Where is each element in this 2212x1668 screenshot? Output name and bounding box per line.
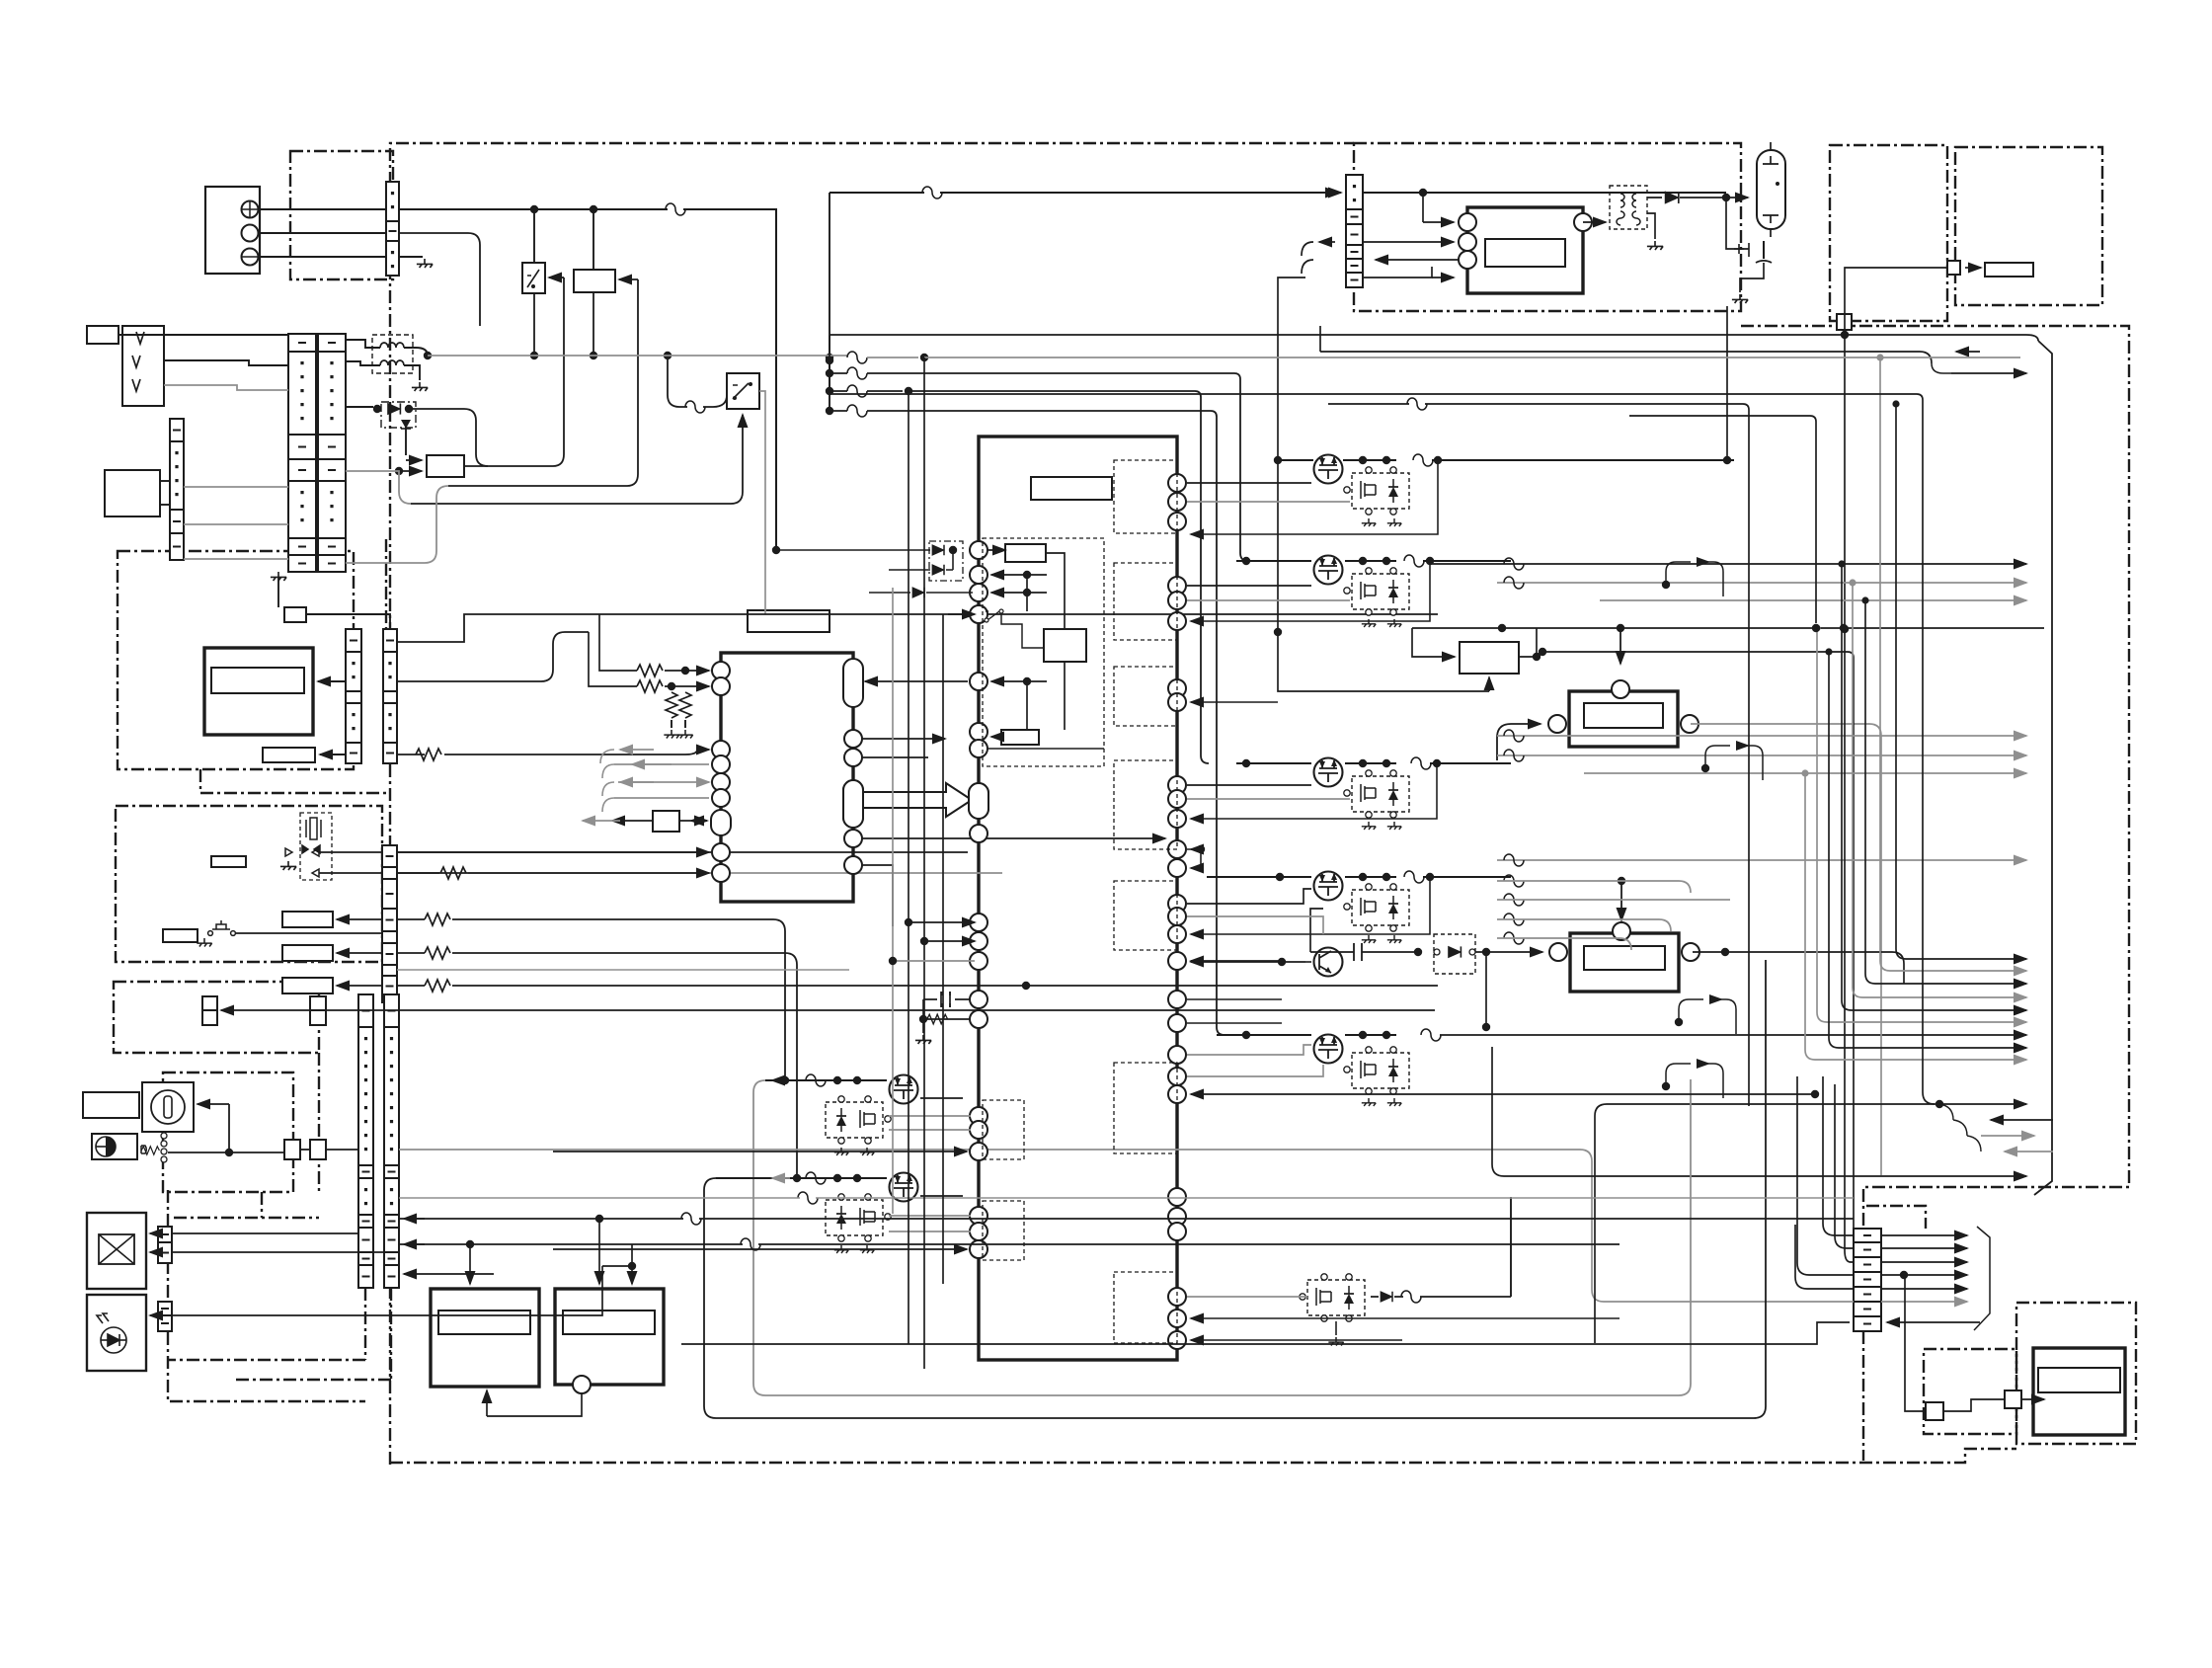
hook dot D <box>1662 1082 1670 1090</box>
wire CN302 r3 <box>397 952 425 954</box>
ground C901 <box>1732 294 1748 303</box>
dot y339 <box>1841 331 1849 339</box>
rail dot q904a <box>1359 873 1367 881</box>
tuner sub rect <box>211 856 246 867</box>
wire bundle w3 <box>829 390 847 392</box>
cluster return Q902 <box>1191 561 1430 621</box>
wire lb1 stub <box>1595 1104 1607 1343</box>
junction motor2 top <box>1618 877 1625 885</box>
opto dash-dot box D201 <box>381 402 416 428</box>
ground Q904 b <box>1387 935 1401 943</box>
wire D202 down <box>405 429 407 455</box>
arrow LED <box>150 1314 158 1316</box>
arrow left feed2 <box>404 1243 425 1245</box>
wire tuner clk a <box>319 851 382 853</box>
wire C2 run <box>1497 881 1691 893</box>
rail Q904 <box>1207 876 1396 878</box>
illum resistor <box>141 1146 146 1153</box>
connector CN201-a <box>288 334 316 572</box>
wire L201a out <box>404 348 428 356</box>
arrow pin711 <box>1191 701 1278 703</box>
wire D901 to lamp <box>1680 197 1748 199</box>
diode D802 <box>932 565 944 576</box>
wire fan1-0 <box>1896 404 2026 959</box>
dot q901 return <box>1434 456 1442 464</box>
wire fan1-2 <box>1865 600 2026 984</box>
dot 786-557 <box>772 546 780 554</box>
dot 1839-636 <box>1812 624 1820 632</box>
wire fan1-5 <box>1817 628 2026 1022</box>
cluster return Q903 <box>1191 763 1437 819</box>
wire Q801 pins <box>889 1116 971 1130</box>
driver dashed box Q901 <box>1344 467 1409 515</box>
arrow ir out <box>1956 351 1980 353</box>
wire D803 in <box>869 592 910 594</box>
servo amp rect <box>1005 544 1046 562</box>
wire encoder drop <box>228 1104 230 1152</box>
vertical bus 904 gray <box>892 588 894 1214</box>
wire CN201b mid out <box>346 471 411 504</box>
junction d1 <box>530 205 538 213</box>
transistor Q906 <box>1314 948 1343 977</box>
wire R304 right <box>452 953 797 1178</box>
junction 690 <box>1023 677 1031 685</box>
wire D201 out right <box>409 409 488 466</box>
arrow amp link <box>221 1009 310 1011</box>
junction L201 out <box>424 352 432 359</box>
wire illum to plugs <box>168 1152 284 1153</box>
dot q901 rail left <box>1274 456 1282 464</box>
junction boxB top2 <box>628 1262 636 1270</box>
junction R702 <box>668 682 675 690</box>
tuner rect B <box>282 945 333 961</box>
junction D902 low <box>1482 1023 1490 1031</box>
fan1 top dot 1 <box>1876 354 1883 360</box>
main unit dash-dot border left+top <box>390 143 1354 1465</box>
switch glyph S101 <box>527 270 539 287</box>
arrow boxB top2 <box>631 1244 633 1284</box>
wire LED run <box>172 1266 632 1315</box>
dot q904 return <box>1426 873 1434 881</box>
junction motor2 right <box>1721 948 1729 956</box>
junction q903 left <box>1242 759 1250 767</box>
MOSFET Q902 <box>1314 556 1343 585</box>
wire T901 link <box>1583 213 1655 239</box>
wire pin767 right2 <box>861 756 928 758</box>
bead bottom2 <box>741 1238 760 1250</box>
IC701 label box <box>748 610 829 632</box>
resistor R301 <box>416 749 441 760</box>
wire kb to display sq <box>1943 1399 2005 1411</box>
bead C1 <box>1504 854 1524 866</box>
wire D801 wires <box>776 550 953 570</box>
encoder label rect <box>83 1092 139 1118</box>
fan1 top dot 3 <box>1849 579 1856 586</box>
fuse bundle 4 <box>847 405 867 417</box>
arrow into RY201 a <box>406 459 422 461</box>
rotary encoder dash-dot box <box>163 1072 293 1192</box>
fan1 top dot 0 <box>1892 400 1899 407</box>
tuner switch glyph <box>208 920 236 935</box>
arrow EEPROM right2 <box>691 820 707 822</box>
arrow into IC902 <box>1438 656 1455 658</box>
rail q902 out <box>1423 560 1511 562</box>
riser into SW102 <box>411 415 743 504</box>
arrow pin860 <box>1191 848 1201 850</box>
arrow boxB top1 <box>598 1219 600 1284</box>
riser into RY101 <box>448 279 638 486</box>
zener dashed box D902 <box>1434 934 1475 974</box>
ground Q901 b <box>1387 518 1401 526</box>
arrow EEPROM left <box>612 820 653 822</box>
fan1 top dot 6 <box>1825 648 1832 655</box>
tuner switch rect <box>163 929 197 942</box>
lb S-curves <box>1939 1104 1981 1152</box>
arrow left feed1 <box>404 1218 425 1220</box>
wire R303 right <box>452 919 785 1080</box>
junction boxB top <box>595 1215 603 1223</box>
wire lb2 return <box>1991 1119 2053 1121</box>
arrow hook CN901 <box>1319 241 1335 243</box>
wire remote drop <box>1844 330 1846 629</box>
loading motor M901 <box>1569 691 1678 747</box>
bundle vertical 840 <box>829 193 830 411</box>
sub display block bottom-right <box>2033 1348 2125 1435</box>
wire C902 drop <box>1310 909 1323 952</box>
arrow IC902 bottom <box>1488 677 1490 691</box>
bead q903 <box>1411 757 1431 769</box>
MOSFET Q905 <box>1314 1035 1343 1064</box>
dot 840-365 <box>826 357 833 364</box>
ground tuner sw <box>197 938 211 947</box>
ground Q903 a <box>1362 822 1376 830</box>
wire CN901 p4 <box>1363 267 1432 278</box>
ground tuner <box>280 861 296 870</box>
rail dot q903b <box>1382 759 1390 767</box>
hook arrow pair A <box>1705 746 1763 780</box>
LCD display block <box>204 648 313 735</box>
coil L201a <box>380 343 404 348</box>
driver dashed box Q904 <box>1344 884 1409 931</box>
wire CN902 fan 2 <box>1881 1261 1967 1263</box>
arrow into S101 right <box>549 277 564 278</box>
arrow hook 792 <box>620 781 654 783</box>
wire into pin 792 <box>618 781 709 783</box>
IC801 left stadium <box>969 783 988 819</box>
fluorescent lamp FL901 <box>1757 150 1785 229</box>
resistor R702 <box>637 680 663 692</box>
wire CN902 dot drop <box>1905 1275 1926 1411</box>
wire bundle w4 <box>829 410 847 412</box>
keyboard square <box>1926 1402 1943 1420</box>
hook arrow pair C <box>1679 999 1736 1034</box>
arrow R702 to pin <box>665 685 709 687</box>
wire bundle w3b <box>867 390 903 392</box>
vertical bus CN902 f4 <box>1797 1076 1854 1275</box>
MOSFET Q904 <box>1314 872 1343 901</box>
dot 939-953 <box>920 937 928 945</box>
wire CN201 bottom out <box>346 486 448 563</box>
dot lb join <box>1935 1100 1943 1108</box>
servo switch glyph <box>986 611 1003 620</box>
rail Q801 long loop <box>753 1079 1691 1395</box>
wire lb1 <box>1607 1103 2026 1105</box>
wire FM ant 1 <box>118 334 288 336</box>
diode D803b <box>1381 1292 1392 1303</box>
display unit dash-dot box top-right <box>1955 147 2102 305</box>
vertical bus 936 <box>923 357 925 1369</box>
tuner connector CN302 <box>382 845 397 1002</box>
ground Q902 b <box>1387 619 1401 627</box>
wire top right angle <box>2034 341 2052 1195</box>
main unit dash-dot border right <box>1741 326 2129 1461</box>
wire CN202-CN201 2 <box>184 523 288 525</box>
rail q905 out <box>1440 1034 2026 1036</box>
driver box Q803 <box>1300 1274 1365 1321</box>
rail dot 802b <box>853 1174 861 1182</box>
bead Q803 <box>1401 1291 1421 1303</box>
junction C801 <box>919 1015 927 1023</box>
wire motor1 top rail <box>1619 628 1621 644</box>
IC801 right mid dashed box <box>1114 760 1177 849</box>
wire AM loop a <box>160 480 170 482</box>
wire rail 636 <box>1412 627 2044 629</box>
bead bottom1 <box>681 1213 701 1225</box>
key matrix glyph <box>99 1234 134 1264</box>
wire lb5 <box>1526 1175 2026 1177</box>
arrow servo logic down <box>1064 662 1066 691</box>
resistor R305 <box>425 980 450 992</box>
rail 396 dot <box>905 387 912 395</box>
vertical bus 955 <box>942 614 944 1284</box>
gray rail y360 <box>428 355 847 357</box>
bead A1 <box>1504 558 1524 570</box>
wire drop to power switch <box>533 209 535 263</box>
connector CN301-b <box>383 629 397 763</box>
relay RY101 <box>574 270 615 292</box>
arrow out pin 774 <box>614 763 709 765</box>
arrow left feed3 <box>404 1273 494 1275</box>
ground Q904 a <box>1362 935 1376 943</box>
vertical bus CN902 f1 <box>1823 1076 1854 1235</box>
wire IC902 left <box>1412 628 1438 657</box>
wire CN902 left feeds <box>1795 1225 1854 1289</box>
wire amp right <box>326 1009 1435 1011</box>
regulator IC902 <box>1460 642 1519 674</box>
bundle dot 4 <box>826 407 833 415</box>
wire FM ant 2 <box>164 360 288 365</box>
dot pin1108 <box>1811 1090 1819 1098</box>
diode D801 <box>932 545 944 556</box>
MOSFET Q801 <box>890 1075 918 1104</box>
rear connector CN902 <box>1854 1229 1881 1331</box>
wire SW102 out gray <box>759 391 765 614</box>
hook arrow pair D <box>1666 1064 1723 1098</box>
wire CN302 r4 <box>397 985 425 987</box>
wire pin748 right <box>861 738 945 740</box>
X201 dashed box <box>300 813 332 880</box>
rail dot q901a <box>1359 456 1367 464</box>
wire bottom feed3 <box>399 1197 1854 1199</box>
wire C4 run <box>1497 919 1671 931</box>
arrow key top <box>150 1232 158 1234</box>
CN902 dash-dot notch <box>1866 1206 1926 1229</box>
rail q904 out <box>1423 876 1511 878</box>
wire CN902 fan 4 <box>1881 1288 1967 1290</box>
power switch S101 <box>522 263 545 293</box>
wire into pin973 gray <box>893 960 975 962</box>
LED box <box>87 1295 146 1371</box>
arrow hook 759 <box>620 749 654 751</box>
ground Q901 a <box>1362 518 1376 526</box>
vertical bus 920 <box>908 391 909 1344</box>
servo logic box <box>1044 629 1086 662</box>
wire CN902 fan 3 <box>1881 1274 1967 1276</box>
arrow into sub rect <box>1064 691 1066 730</box>
wire Q803 gnd <box>1335 1321 1337 1335</box>
arrow rail Q802 left <box>772 1177 790 1179</box>
wire motor1 right out <box>1691 724 1881 1175</box>
wire Q803 out <box>1510 1197 1512 1297</box>
wire q903 gate <box>1187 784 1311 786</box>
FM antenna label rect <box>87 326 118 344</box>
junction q904 left <box>1276 873 1284 881</box>
wire C902 left <box>1310 951 1354 953</box>
bundle dot 3 <box>826 387 833 395</box>
arrow IC901 bottom in <box>1432 277 1454 278</box>
wire bundle w3c <box>908 391 1209 763</box>
main IC801 (servo/DSP) <box>979 437 1177 1360</box>
cluster return Q901 <box>1191 460 1438 534</box>
arrow into pin953 <box>924 940 975 942</box>
rail Q901 <box>1278 459 1396 461</box>
wire fan1-1 <box>1880 357 2026 971</box>
ground Q801a <box>834 1148 848 1155</box>
wire Q906 emitter <box>1191 961 1305 963</box>
wire fan1-4 <box>1842 564 2026 1010</box>
wire 690 drop <box>1026 681 1028 730</box>
IC701-IC801 bus arrow <box>862 783 972 817</box>
bead q904 <box>1404 871 1424 883</box>
wire AC E to CN101 <box>258 256 386 258</box>
arrow into pin 759 <box>697 749 709 751</box>
wire CN302 r1 <box>397 872 439 874</box>
wire AM loop b <box>160 504 170 506</box>
rail dot 801a <box>833 1076 841 1084</box>
arrow remote <box>1965 267 1981 269</box>
wire CN902 fan 0 <box>1881 1234 1967 1236</box>
wire pin1012 cap <box>923 998 971 1000</box>
arrow motor2 top <box>1620 901 1622 920</box>
wire tuner out top <box>397 851 968 853</box>
wire main 5V run <box>829 192 1338 194</box>
fuse F102 <box>685 401 705 413</box>
wire bundle w2b <box>867 373 1248 561</box>
arrow tuner C <box>337 985 382 987</box>
wire into pin 863 <box>397 851 709 853</box>
cluster return Q904 <box>1191 877 1430 934</box>
block A inner rect <box>438 1311 530 1334</box>
arrow into T901 <box>1590 221 1606 223</box>
wire CN202-CN201 3 <box>184 558 288 560</box>
wire tuner clk b <box>319 872 382 874</box>
rail dot q904b <box>1382 873 1390 881</box>
junction D801 <box>949 546 957 554</box>
tuner rect A <box>282 912 333 927</box>
fan1 top dot 2 <box>1861 596 1868 603</box>
connector CN101 (AC) <box>386 182 399 276</box>
IC801 right pins <box>1168 474 1186 492</box>
wire bottom feed1 <box>399 1218 1854 1220</box>
rail Q802 <box>716 1177 887 1179</box>
LCD display dash-dot box <box>118 551 354 769</box>
sub power switch SW102 <box>727 373 759 409</box>
junction q902 left <box>1242 557 1250 565</box>
fluorescent-lamp inverter dash-dot box <box>1354 143 1741 311</box>
illum contact circles <box>161 1133 167 1139</box>
fan1 top dot 5 <box>1813 624 1820 631</box>
diode D901 <box>1665 192 1679 203</box>
resistor R704 <box>679 692 691 718</box>
wire illum feed right <box>399 1150 1854 1302</box>
bead Q802 <box>806 1172 826 1184</box>
arrow CN901 in <box>1305 192 1341 194</box>
capacitor C902 <box>1354 943 1362 961</box>
wire gnd-reg link <box>277 578 279 607</box>
junction D902 out <box>1482 948 1490 956</box>
fuse bundle 3 <box>847 385 867 397</box>
wire EEPROM far left <box>583 820 620 822</box>
wire D902 out <box>1475 951 1521 953</box>
wire reset out <box>464 465 488 467</box>
rail dot q905a <box>1359 1031 1367 1039</box>
wire lamp cap link <box>1726 198 1749 249</box>
LCD driver rect <box>263 748 315 762</box>
IC701 right stadium pins <box>843 659 863 707</box>
wire sig C1 <box>1497 859 2026 861</box>
bead B2 <box>1504 750 1524 761</box>
arrow into LCD <box>318 680 346 682</box>
wire q901 gate <box>1187 482 1311 484</box>
rotary encoder knob <box>151 1090 185 1124</box>
wire sig A3 <box>1600 599 2026 601</box>
wire sig B3 <box>1584 772 2026 774</box>
antenna V glyphs <box>132 332 144 391</box>
AC power-supply dash-dot box <box>290 151 393 279</box>
IC801 left bottom dashed boxes <box>983 1100 1024 1159</box>
illum plug S1 <box>284 1140 300 1159</box>
fuse F103 <box>922 187 942 199</box>
wire AC L to CN101 <box>258 208 386 210</box>
bead q902 <box>1404 555 1424 567</box>
rail dot 801b <box>853 1076 861 1084</box>
rail Q801 <box>765 1079 887 1081</box>
arrow pin1108 <box>1191 1093 1815 1095</box>
wire q905 pins <box>1187 1065 1323 1076</box>
stub pin1012 <box>1187 998 1282 1000</box>
hook dot C <box>1675 1018 1683 1026</box>
IC801 left pins low <box>970 913 987 931</box>
wire tuner sw to CN302 <box>235 932 382 934</box>
arrow pin1166 <box>553 1151 967 1152</box>
rail Q802 long loop <box>704 960 1766 1418</box>
wire AC N to CN101 <box>258 232 386 234</box>
bead q905 <box>1421 1029 1441 1041</box>
rail 362 dot <box>920 354 928 361</box>
wire Q803 rail <box>1371 1296 1511 1298</box>
tuner pack dash-dot box <box>116 806 382 962</box>
antenna feed square <box>1837 314 1852 330</box>
